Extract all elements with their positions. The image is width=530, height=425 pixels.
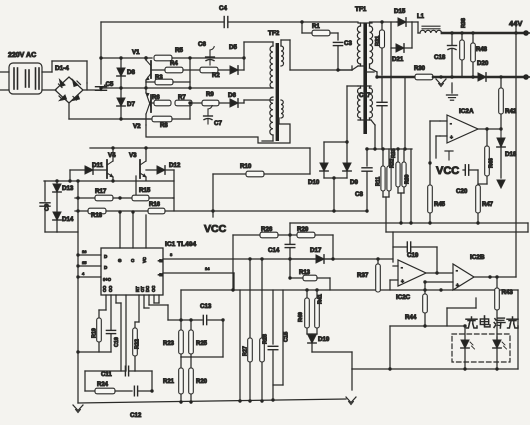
capacitor C18 xyxy=(448,46,457,50)
svg-text:D7: D7 xyxy=(127,101,135,108)
svg-text:+: + xyxy=(401,279,404,285)
wire pin 14 xyxy=(145,215,147,248)
wire TF2 left lower lead xyxy=(272,99,273,101)
node led1 return xyxy=(463,367,466,370)
wire IC2B plus input xyxy=(425,281,453,283)
wire aux hook xyxy=(447,298,476,326)
svg-text:R44: R44 xyxy=(405,314,417,321)
label R29 xyxy=(297,226,309,233)
node y211 left xyxy=(76,209,79,212)
transformer TF2 core xyxy=(276,43,279,141)
wire R33 R39 join xyxy=(398,187,404,193)
svg-text:R5: R5 xyxy=(175,47,183,54)
svg-text:C3: C3 xyxy=(344,40,352,47)
LED charging arrows xyxy=(470,342,475,349)
wire D12 right down xyxy=(173,170,175,211)
wire D10 D9 join xyxy=(324,171,347,178)
label V1 xyxy=(132,49,140,56)
wire col x250 top xyxy=(249,259,251,338)
wire x78 rail xyxy=(77,181,79,403)
wire drive return y148 xyxy=(90,147,310,149)
svg-text:220V AC: 220V AC xyxy=(8,52,36,59)
node y223 x411 xyxy=(409,221,412,224)
svg-text:C10: C10 xyxy=(114,337,120,347)
wire top rail riser xyxy=(100,22,102,84)
svg-text:OC: OC xyxy=(151,286,156,292)
wire R23 R25 bus xyxy=(181,320,223,357)
svg-text:R46: R46 xyxy=(489,158,495,168)
wire D join down xyxy=(333,178,335,211)
svg-text:TF1: TF1 xyxy=(355,6,367,13)
node y290 r37 xyxy=(376,288,379,291)
wire pin3 down xyxy=(116,295,121,371)
label R38 xyxy=(461,18,467,28)
label C5 xyxy=(104,82,114,88)
wire snubber bottom to TF1 xyxy=(340,66,352,70)
wire TF2 left bottom lead xyxy=(262,135,273,141)
node bus lead xyxy=(373,147,376,150)
node y180 v4 xyxy=(111,179,114,182)
capacitor C3 xyxy=(333,42,342,45)
transformer TF2 primary upper xyxy=(270,46,273,88)
svg-text:R31: R31 xyxy=(375,36,381,46)
label R7 xyxy=(178,95,186,101)
wire C12 right xyxy=(135,371,152,391)
node D junction xyxy=(332,176,335,179)
node led feed return xyxy=(388,367,391,370)
wire base bus y180 xyxy=(44,180,174,182)
transformer TF2 secondary upper xyxy=(281,46,284,66)
wire D6 to TF2 xyxy=(244,100,272,103)
node y180 x78 xyxy=(76,179,79,182)
capacitor C8 xyxy=(362,168,372,171)
wire x190 tie xyxy=(189,58,191,88)
inductor L1 xyxy=(420,26,442,33)
resistor R24 xyxy=(85,388,115,394)
svg-text:C11: C11 xyxy=(101,372,112,378)
wire VCC stem xyxy=(212,211,214,217)
label L1 xyxy=(417,14,425,20)
diode D14 xyxy=(53,212,61,220)
svg-text:G: G xyxy=(118,258,122,263)
label C6 xyxy=(198,41,206,48)
transistor V4 xyxy=(107,148,113,180)
svg-text:R37: R37 xyxy=(357,272,369,279)
svg-text:R8: R8 xyxy=(160,123,168,129)
svg-text:VC: VC xyxy=(142,257,147,263)
label D18 xyxy=(505,151,517,158)
wire V2 collector to TF2 step xyxy=(146,118,290,143)
node r13 left xyxy=(288,276,291,279)
node y290 r44 xyxy=(423,288,426,291)
node rail A sense xyxy=(514,31,517,34)
svg-text:R19: R19 xyxy=(92,328,98,338)
svg-text:V4: V4 xyxy=(108,152,116,159)
diode D18 xyxy=(497,129,505,147)
node led1 feed xyxy=(463,324,466,327)
wire AC input stub bottom xyxy=(0,89,9,91)
label R27 xyxy=(243,346,249,356)
svg-text:R15: R15 xyxy=(139,187,151,194)
wire bus right drop xyxy=(410,149,412,223)
node pin12 xyxy=(118,210,121,213)
node line1 r27 xyxy=(248,257,251,260)
wire R19 C10 bus xyxy=(78,351,111,353)
label IC1 TL494 xyxy=(165,241,196,248)
wire TF1 top bar xyxy=(358,23,372,26)
svg-text:VCC: VCC xyxy=(204,223,227,235)
label R13 xyxy=(299,270,311,276)
resistor R9 xyxy=(192,100,219,106)
node rail B start xyxy=(375,75,378,78)
svg-text:R26: R26 xyxy=(261,226,273,233)
svg-text:R25: R25 xyxy=(196,341,208,347)
resistor R10 xyxy=(213,171,310,177)
wire aux column x391 xyxy=(390,22,392,149)
label C12 xyxy=(130,412,142,419)
label VCC main xyxy=(204,223,227,235)
wire col x240 xyxy=(239,290,241,401)
svg-text:R11: R11 xyxy=(376,177,382,186)
resistor R27 xyxy=(248,338,253,401)
wire plus rail y88 xyxy=(101,87,272,89)
resistor R31 xyxy=(380,22,385,75)
resistor R17 xyxy=(95,195,113,201)
pin number 14 xyxy=(205,266,210,271)
wire pin8 out xyxy=(163,273,234,290)
label IC2A xyxy=(459,108,474,115)
resistor R38 xyxy=(460,33,465,77)
svg-text:R7: R7 xyxy=(178,95,186,101)
wire R24 to C12 xyxy=(115,390,132,392)
diode D17 xyxy=(290,255,333,263)
resistor R16 xyxy=(148,208,165,214)
wire D8 column top xyxy=(120,58,122,68)
svg-text:D: D xyxy=(104,254,108,259)
diode D19 xyxy=(308,334,316,343)
label R20 xyxy=(196,379,208,385)
label D14 xyxy=(62,216,74,223)
label electric 电 xyxy=(480,316,490,327)
wire TF2 right top lead xyxy=(281,40,290,70)
node y290 r40 xyxy=(305,288,308,291)
node riser y58 xyxy=(99,56,102,59)
svg-text:C12: C12 xyxy=(130,412,142,419)
node C3 bottom xyxy=(336,68,339,71)
transformer TF1 lower left xyxy=(358,88,361,118)
node IC2B out xyxy=(488,275,491,278)
svg-text:R18: R18 xyxy=(91,213,103,219)
node bus rail drop xyxy=(403,147,406,150)
svg-text:IC1 TL494: IC1 TL494 xyxy=(165,241,196,248)
svg-text:R13: R13 xyxy=(299,270,311,276)
pin number 11 xyxy=(170,252,173,257)
resistor R22 xyxy=(133,328,138,371)
label R2 xyxy=(212,73,220,79)
wire y148 to R10 xyxy=(309,148,311,174)
svg-text:R29: R29 xyxy=(297,226,309,233)
capacitor C11 xyxy=(125,366,128,376)
wire gnd col xyxy=(351,369,353,390)
terminal 44V minus xyxy=(523,74,530,80)
node pin13 xyxy=(131,210,134,213)
wire sense to IC2C xyxy=(392,232,394,262)
ground C18 xyxy=(447,95,458,100)
label D7 xyxy=(127,101,135,108)
resistor R42 xyxy=(499,77,504,129)
transformer TF1 core xyxy=(363,23,367,134)
svg-text:C7: C7 xyxy=(214,120,222,127)
wire IC2A minus in xyxy=(430,121,440,185)
label R37 xyxy=(357,272,369,279)
wire R1 to C3 xyxy=(337,33,339,40)
resistor R6 xyxy=(151,100,171,106)
label C17 xyxy=(359,92,371,99)
svg-text:D10: D10 xyxy=(308,179,320,186)
node IC2C out xyxy=(435,271,438,274)
LED charging xyxy=(461,340,469,348)
wire C13 row xyxy=(168,319,223,321)
wire TF1 primary bottom lead xyxy=(340,64,366,70)
svg-text:14: 14 xyxy=(205,266,210,271)
wire R46 bottom xyxy=(478,176,487,184)
svg-text:R39: R39 xyxy=(405,174,411,184)
wire R11 R32 join xyxy=(383,191,389,197)
label R32 xyxy=(390,158,396,168)
node bus r27 xyxy=(248,399,251,402)
diode D7 xyxy=(117,98,125,119)
svg-text:D8: D8 xyxy=(127,69,135,76)
wire IC2A out xyxy=(478,128,501,130)
svg-text:R38: R38 xyxy=(461,18,467,28)
wire x190 tie low xyxy=(189,103,191,119)
capacitor C5 xyxy=(96,87,107,91)
resistor R28 xyxy=(260,338,265,401)
op-amp IC2C xyxy=(390,260,426,286)
label charge2 充 xyxy=(507,317,518,328)
node line1 c14 xyxy=(288,257,291,260)
node r44 bottom xyxy=(423,324,426,327)
label C13 xyxy=(200,303,212,310)
wire IC2C out xyxy=(426,272,452,274)
IC U1 TL494 body xyxy=(101,248,163,295)
transistor V1 xyxy=(146,58,151,82)
resistor R44 xyxy=(423,282,428,326)
svg-text:D17: D17 xyxy=(310,247,322,254)
svg-text:R2: R2 xyxy=(212,73,220,79)
wire R13 right xyxy=(317,278,330,290)
label V2 xyxy=(133,123,141,130)
node rail A R38 xyxy=(460,31,463,34)
node D9 top tap xyxy=(345,140,348,143)
svg-text:L1: L1 xyxy=(417,14,425,20)
svg-text:-: - xyxy=(450,121,452,127)
node rail A C18 xyxy=(450,31,453,34)
node rail A R48 xyxy=(471,31,474,34)
transformer TF2 primary lower xyxy=(270,97,273,135)
node IC2A out xyxy=(499,127,502,130)
wire R46 top xyxy=(486,129,488,146)
wire pin1 to R19 xyxy=(99,295,106,318)
label R42 xyxy=(505,108,517,115)
resistor R41 xyxy=(315,290,320,328)
wire TF2 plus rail lead xyxy=(272,87,273,89)
svg-text:R1: R1 xyxy=(312,24,320,30)
resistor R47 xyxy=(476,185,481,223)
capacitor C20 xyxy=(465,165,468,175)
resistor R20 xyxy=(189,357,194,403)
label C10 xyxy=(114,337,120,347)
wire led feed line xyxy=(390,326,465,369)
svg-text:9+O: 9+O xyxy=(103,277,112,282)
resistor R8 xyxy=(121,116,190,122)
label C4 xyxy=(219,5,227,12)
label R48 xyxy=(476,47,488,53)
label D21 xyxy=(392,56,404,63)
node R43 top xyxy=(495,275,498,278)
label D10 xyxy=(308,179,320,186)
diode D8 xyxy=(117,68,125,88)
svg-text:C: C xyxy=(131,258,135,263)
capacitor C7 xyxy=(204,106,213,124)
diode D9 xyxy=(343,163,351,171)
label R1 xyxy=(312,24,320,30)
node R44 top xyxy=(423,280,426,283)
wire led return bus xyxy=(352,290,518,369)
svg-text:+: + xyxy=(456,283,459,289)
svg-text:C4: C4 xyxy=(219,5,227,12)
node D8 bottom xyxy=(119,86,122,89)
node rail B R42 xyxy=(499,75,502,78)
transformer TF1 primary xyxy=(357,26,360,64)
node pin15 xyxy=(76,264,79,267)
wire C9 bottom xyxy=(45,207,57,232)
node ic2b under xyxy=(439,288,442,291)
wire pin9 to C13 row xyxy=(149,295,168,320)
resistor R2 xyxy=(183,67,218,73)
resistor R32 xyxy=(387,149,391,191)
label C11 xyxy=(101,372,112,378)
wire C3 down xyxy=(337,46,339,70)
resistor R3 xyxy=(146,79,190,85)
node minus col xyxy=(428,161,431,164)
svg-text:16: 16 xyxy=(82,249,87,254)
svg-text:R3: R3 xyxy=(155,75,163,81)
svg-text:R45: R45 xyxy=(434,202,446,208)
wire LED2 bottom xyxy=(496,348,498,369)
node R46 top xyxy=(485,127,488,130)
node d17 right xyxy=(331,257,334,260)
node r26 r29 xyxy=(288,233,291,236)
wire filter to bridge bottom xyxy=(42,89,56,91)
node y290 r41 xyxy=(315,288,318,291)
label R22 xyxy=(135,339,141,349)
label D15 xyxy=(394,8,406,15)
resistor R30 xyxy=(415,74,433,80)
node C5 plus rail xyxy=(99,86,102,89)
wire C18 gnd stem xyxy=(451,83,453,93)
label R47 xyxy=(482,202,494,208)
wire C5 to plus line xyxy=(100,90,102,92)
wire C18 bottom lead xyxy=(451,49,453,77)
wire D14 bottom xyxy=(57,220,78,232)
node x334 tie xyxy=(332,209,335,212)
node line1 r28 xyxy=(260,257,263,260)
label R10 xyxy=(240,163,252,170)
wire R29 right drop xyxy=(332,235,334,259)
wire V1 emitter tie xyxy=(145,82,147,88)
ground output rail xyxy=(436,79,446,87)
wire pin11 out xyxy=(163,258,393,260)
ground mid xyxy=(346,397,356,405)
svg-text:R21: R21 xyxy=(163,379,175,385)
svg-text:R16: R16 xyxy=(149,202,161,208)
resistor R18 xyxy=(88,208,106,214)
wire R10 to VCC node xyxy=(212,174,214,211)
wire C10 down xyxy=(110,334,112,352)
label R17 xyxy=(95,188,107,195)
label R31 xyxy=(375,36,381,46)
svg-text:C20: C20 xyxy=(456,188,468,195)
svg-text:R32: R32 xyxy=(390,158,396,168)
svg-text:V2: V2 xyxy=(133,123,141,130)
wire col x273 top xyxy=(272,290,274,344)
LED floating arrows xyxy=(502,342,507,349)
wire 44V sense drop xyxy=(515,33,517,277)
capacitor C4 xyxy=(224,17,228,28)
wire D18 down xyxy=(500,147,502,178)
label TF2 xyxy=(268,30,280,37)
node emitter tie xyxy=(144,86,147,89)
node pin16 xyxy=(76,253,79,256)
wire C11 row xyxy=(85,370,135,372)
node D8 top xyxy=(119,56,122,59)
wire D15 D21 join xyxy=(411,22,413,48)
svg-text:R17: R17 xyxy=(95,188,107,195)
node y223 r47 xyxy=(476,221,479,224)
diode D10 xyxy=(320,163,328,171)
label R46 xyxy=(489,158,495,168)
wire C20 to R47 xyxy=(469,170,478,185)
wire D13 top xyxy=(56,181,58,184)
wire pin4 xyxy=(78,276,101,278)
label R39 xyxy=(405,174,411,184)
wire D11 left bend xyxy=(69,170,71,180)
wire bridge bottom to minus rail xyxy=(68,103,70,119)
resistor R23 xyxy=(179,320,184,357)
label D17 xyxy=(310,247,322,254)
node C12 right xyxy=(150,389,153,392)
ground main left xyxy=(73,405,83,413)
svg-text:C18: C18 xyxy=(434,54,446,61)
wire bridge plus to C5 node xyxy=(83,83,101,90)
svg-text:CO: CO xyxy=(102,285,107,292)
label charge 充 xyxy=(466,317,477,328)
indicator box dashed xyxy=(452,334,510,362)
svg-text:VCC: VCC xyxy=(436,165,459,177)
wire comparator bus y290 xyxy=(181,290,518,320)
resistor R39 xyxy=(402,149,406,187)
label R24 xyxy=(97,382,109,388)
svg-text:R33: R33 xyxy=(391,148,397,158)
wire rail B to bus xyxy=(404,77,406,149)
node x190 y103 xyxy=(188,101,191,104)
svg-text:V1: V1 xyxy=(132,49,140,56)
wire top rail xyxy=(101,21,358,23)
capacitor C10 xyxy=(106,330,115,333)
wire col x273 bottom xyxy=(272,351,274,400)
node y290 x233 xyxy=(231,288,234,291)
